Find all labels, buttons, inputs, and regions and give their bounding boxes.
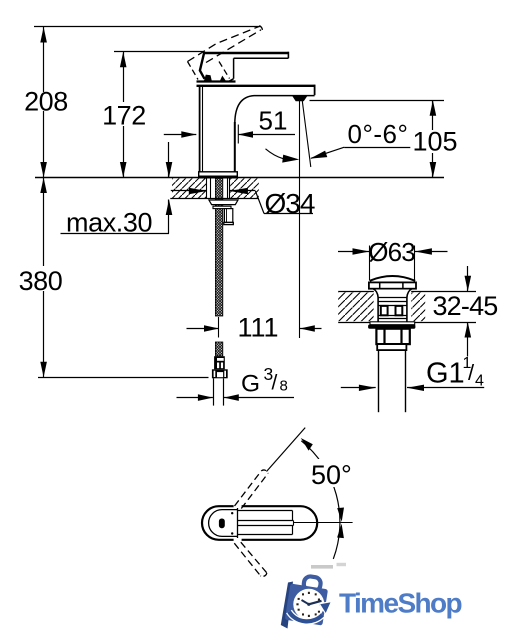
logo grey marks <box>311 565 333 569</box>
svg-text:max.30: max.30 <box>66 208 152 238</box>
drain cap dim diam 63 <box>338 237 448 281</box>
svg-text:380: 380 <box>19 266 63 296</box>
lever pivot block <box>200 53 227 82</box>
svg-text:111: 111 <box>237 313 278 343</box>
logo bag handle <box>303 576 322 592</box>
body top edge <box>197 80 236 82</box>
lever bar (front view) <box>203 52 288 82</box>
body left edge <box>199 85 201 173</box>
dimension 51 <box>164 106 295 144</box>
svg-text:0°-6°: 0°-6° <box>348 119 409 149</box>
spray line 6 deg <box>302 101 311 167</box>
drain deck hatch <box>338 292 476 323</box>
threaded shank and braided hose <box>215 178 222 356</box>
svg-text:Ø63: Ø63 <box>368 237 415 267</box>
hose crimp connector <box>214 356 225 369</box>
svg-text:TimeShop: TimeShop <box>339 588 462 619</box>
50 degree line <box>267 428 306 472</box>
pill outline notch top <box>234 505 242 508</box>
svg-text:/: / <box>272 372 278 395</box>
dimension 105 <box>412 100 457 177</box>
top view lever slot <box>238 511 294 535</box>
faucet base plate <box>199 172 238 178</box>
body left inner line <box>202 86 204 172</box>
logo swoosh arrow <box>289 602 332 622</box>
svg-text:G: G <box>241 371 260 398</box>
logo clock face <box>293 589 324 620</box>
deck hatch left <box>172 178 207 198</box>
dimension 32-45 <box>432 266 497 357</box>
label 0-6 degrees <box>310 119 410 159</box>
spout underside <box>235 96 315 123</box>
aerator <box>292 96 307 101</box>
spout right edge <box>314 85 316 96</box>
svg-text:/: / <box>468 360 475 385</box>
spray angle arc <box>266 149 300 163</box>
mounting slider <box>224 209 234 225</box>
drain cap dome <box>369 276 416 289</box>
50 degree arc <box>301 441 340 559</box>
dimension 208 <box>24 27 68 178</box>
raised lever ghost (dashed) <box>188 26 263 80</box>
hose nut <box>212 369 228 378</box>
logo bag body <box>285 583 328 625</box>
svg-text:8: 8 <box>280 378 288 395</box>
svg-text:105: 105 <box>412 127 457 157</box>
dimension 380 <box>19 178 63 378</box>
deck hole edges <box>207 178 230 199</box>
top view centerline <box>294 522 353 524</box>
drain flange washer <box>368 322 415 329</box>
50 arc top arrowhead <box>301 438 313 451</box>
pill outline notch bottom <box>234 538 242 541</box>
svg-text:32-45: 32-45 <box>432 291 497 321</box>
label 50 degrees <box>308 459 356 490</box>
drain body in deck <box>373 289 411 322</box>
spout outlet ref line 105 <box>310 100 445 102</box>
deck bottom line <box>170 198 258 200</box>
mounting nut bar <box>213 206 231 208</box>
svg-text:208: 208 <box>24 87 68 117</box>
dimension 111 <box>187 313 322 343</box>
spout top edge <box>197 85 315 87</box>
body right edge <box>234 122 236 173</box>
top view pill body <box>202 506 317 540</box>
dimension max.30 <box>61 142 173 238</box>
svg-text:Ø34: Ø34 <box>265 188 315 219</box>
ref line top 208 <box>34 26 261 28</box>
dimension G3/8 <box>177 364 295 401</box>
50 arc center arrows <box>337 508 344 522</box>
svg-text:172: 172 <box>102 101 146 131</box>
hose bottom ref line <box>38 377 209 379</box>
deck top line <box>35 177 444 179</box>
svg-text:4: 4 <box>475 373 484 390</box>
pipe below nut <box>214 378 224 405</box>
ref line 172 <box>114 51 204 53</box>
dimension 172 <box>102 52 146 178</box>
top view ghost lever upper (dashed) <box>235 470 269 508</box>
svg-text:G1: G1 <box>426 358 465 390</box>
dimension G1 1/4 <box>341 355 484 391</box>
deck hatch right <box>230 178 259 198</box>
mounting washer <box>209 200 238 205</box>
top view ghost lever lower (dashed) <box>234 542 266 576</box>
logo bag back flap <box>281 582 293 629</box>
svg-text:50°: 50° <box>311 460 352 490</box>
spray line 0 deg and 111 extension line <box>299 101 301 338</box>
drain nut <box>376 329 409 350</box>
drain tailpipe <box>379 350 406 412</box>
dimension diam 34 <box>171 188 315 219</box>
svg-text:51: 51 <box>259 106 288 136</box>
